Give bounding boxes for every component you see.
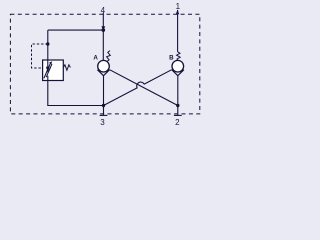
svg-text:3: 3 — [100, 118, 105, 127]
svg-text:2: 2 — [175, 118, 180, 127]
svg-text:A: A — [93, 54, 98, 61]
svg-text:1: 1 — [176, 2, 181, 11]
svg-text:4: 4 — [101, 6, 106, 15]
svg-text:B: B — [169, 54, 174, 61]
